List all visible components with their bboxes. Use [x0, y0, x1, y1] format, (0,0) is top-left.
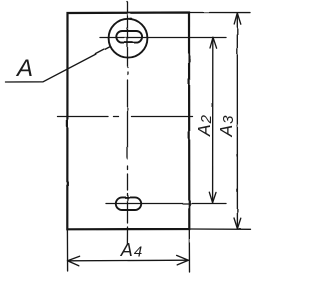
label A3 [216, 115, 237, 138]
A2 bottom arrow [209, 192, 216, 203]
leader line for A [6, 46, 111, 82]
vertical centerline [126, 2, 128, 245]
bottom edge extension line [189, 228, 250, 230]
A4 left arrow [68, 256, 80, 266]
hole A slot [116, 31, 142, 43]
bottom slot [116, 197, 141, 210]
hole A horizontal centerline / A2 extension [100, 37, 226, 39]
bottom slot horizontal centerline / A2 extension [106, 203, 226, 205]
horizontal mid centerline [58, 116, 193, 118]
right edge extension down [188, 229, 190, 272]
svg-text:A3: A3 [216, 115, 237, 138]
A4 right arrow [177, 255, 189, 265]
A4 dimension line [68, 259, 189, 262]
top edge extension line [189, 12, 250, 14]
plate outline [67, 13, 189, 230]
A2 dimension line [212, 37, 214, 203]
left edge extension down [66, 229, 68, 271]
svg-text:A2: A2 [194, 114, 215, 137]
label A2 [194, 114, 215, 137]
svg-text:A: A [15, 55, 33, 82]
A3 dimension line [236, 13, 238, 229]
A3 bottom arrow [234, 218, 241, 229]
hole A circle [109, 19, 148, 58]
svg-text:A4: A4 [120, 240, 142, 260]
A2 top arrow [210, 37, 217, 48]
A3 top arrow [234, 13, 241, 24]
